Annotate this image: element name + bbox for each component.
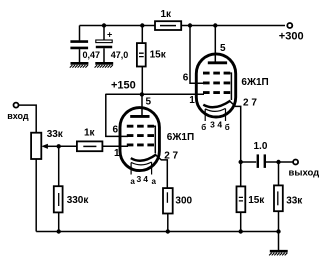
junction dot ground node: [276, 229, 280, 233]
wire cathode V2 down: [230, 101, 241, 162]
junction dot cap2 top: [102, 23, 106, 27]
svg-text:1к: 1к: [161, 9, 173, 20]
wire to ground: [278, 232, 280, 251]
wire bottom rail: [36, 231, 278, 233]
resistor 15k lower: [237, 162, 246, 232]
terminal +300: [287, 23, 292, 28]
wire to output terminal: [279, 161, 293, 163]
svg-text:б: б: [201, 123, 206, 132]
potentiometer 33k: [31, 133, 41, 232]
resistor 1k grid: [77, 141, 103, 151]
junction dot wiper node: [57, 144, 61, 148]
heater leg a V2: [204, 109, 206, 121]
svg-text:330к: 330к: [67, 195, 90, 206]
anode bar V2: [208, 61, 227, 64]
svg-text:а: а: [152, 177, 157, 186]
svg-text:3: 3: [137, 174, 142, 184]
cathode V1: [131, 154, 157, 160]
svg-text:1: 1: [114, 148, 120, 159]
svg-text:6Ж1П: 6Ж1П: [241, 77, 268, 88]
svg-text:+300: +300: [279, 31, 304, 43]
resistor 300: [163, 188, 173, 231]
grid g2 V2: [203, 81, 230, 84]
tube V2 6Zh1P: [196, 54, 235, 121]
anode bar V1: [130, 115, 149, 118]
heater V2: [205, 108, 225, 111]
ground bottom right: [269, 251, 288, 255]
grid g3 V1: [127, 125, 154, 128]
resistor 33k output: [274, 162, 283, 232]
svg-text:6Ж1П: 6Ж1П: [167, 132, 194, 143]
junction dot g2 feed top: [188, 23, 192, 27]
terminal input: [14, 103, 19, 108]
heater leg a V1: [130, 163, 132, 175]
svg-text:0,47: 0,47: [83, 50, 101, 60]
heater V1: [131, 162, 152, 165]
anode lead V1: [141, 94, 143, 115]
ground under C1: [70, 63, 89, 67]
svg-text:выход: выход: [289, 167, 320, 178]
wire anode feed V2: [214, 26, 216, 62]
svg-text:б: б: [225, 123, 230, 132]
terminal output: [293, 160, 298, 165]
svg-text:вход: вход: [7, 111, 29, 121]
resistor R top 1k: [155, 21, 181, 30]
junction dot 300 bottom: [166, 229, 170, 233]
wire wiper to 330k: [58, 146, 60, 185]
wire top rail right of 1k: [181, 25, 285, 27]
wire input to pot: [19, 105, 36, 133]
svg-text:1к: 1к: [84, 128, 96, 139]
g3 tie to cathode V2: [230, 73, 231, 100]
envelope V2: [196, 54, 235, 117]
junction dot anode feed top: [213, 23, 217, 27]
svg-text:+: +: [107, 30, 112, 40]
svg-text:15к: 15к: [150, 49, 167, 60]
junction dot 15k bottom: [239, 229, 243, 233]
wire screen feed V1: [106, 94, 128, 137]
envelope V1: [120, 108, 159, 171]
svg-text:15к: 15к: [248, 195, 265, 206]
svg-text:5: 5: [220, 43, 226, 54]
junction dot anode V1: [140, 92, 144, 96]
tube V1 6Zh1P: [120, 94, 159, 175]
grid g1 V1: [127, 143, 154, 146]
junction dot 15k top: [140, 23, 144, 27]
capacitor 1.0: [241, 154, 279, 168]
svg-text:33к: 33к: [286, 195, 303, 206]
wire 1k to grid V1: [102, 145, 128, 147]
heater leg b V2: [225, 109, 227, 121]
wire +150 node: [106, 93, 204, 95]
resistor 330k: [54, 186, 63, 231]
wire top rail: [80, 25, 156, 27]
svg-text:1: 1: [189, 95, 195, 106]
wire wiper to 1k: [59, 145, 77, 147]
g3 tie to cathode V1: [154, 126, 155, 153]
heater leg b V1: [151, 162, 153, 174]
svg-text:1.0: 1.0: [254, 141, 268, 152]
svg-text:а: а: [130, 177, 135, 186]
svg-text:3: 3: [210, 119, 215, 129]
resistor 15k upper: [137, 26, 146, 95]
cathode V2: [203, 101, 230, 108]
junction dot cathode V2 node: [239, 160, 243, 164]
grid g1 V2: [203, 91, 230, 94]
grid g2 V1: [127, 134, 154, 137]
svg-text:2 7: 2 7: [243, 97, 257, 108]
grid g3 V2: [203, 72, 230, 75]
ground under C2: [95, 63, 114, 67]
svg-text:4: 4: [143, 174, 148, 184]
capacitor C2 47.0 electrolytic: [96, 26, 112, 63]
junction dot 330k bottom: [57, 229, 61, 233]
capacitor C1 0.47: [70, 26, 88, 63]
wiper arrow: [41, 144, 58, 149]
junction dot output node: [276, 160, 280, 164]
svg-text:300: 300: [175, 195, 192, 206]
svg-text:33к: 33к: [47, 129, 64, 140]
wire g2 feed V2: [190, 26, 204, 84]
svg-text:6: 6: [183, 73, 189, 84]
svg-text:4: 4: [217, 119, 222, 129]
svg-text:5: 5: [146, 96, 152, 107]
svg-text:6: 6: [113, 124, 119, 135]
svg-text:+150: +150: [111, 79, 136, 91]
svg-text:47,0: 47,0: [111, 50, 129, 60]
wire cathode V1 to R300: [156, 155, 168, 188]
